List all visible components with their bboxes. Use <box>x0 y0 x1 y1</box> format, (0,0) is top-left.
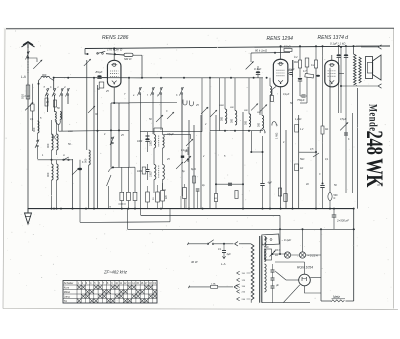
label RGN 1054 <box>297 266 313 270</box>
svg-text:0,1µF: 0,1µF <box>283 93 290 96</box>
wire lamp chain <box>306 254 321 256</box>
svg-text:0.1µF / 1 kΩ: 0.1µF / 1 kΩ <box>330 42 346 46</box>
hook pair B <box>190 101 194 106</box>
switch S5a <box>138 87 142 96</box>
wire v280 down <box>280 87 282 209</box>
wire V1 cathode down <box>113 87 115 103</box>
capacitor V2 k <box>271 87 277 102</box>
terminal pickup <box>260 129 266 134</box>
wire drop v186 <box>185 198 187 209</box>
svg-text:L.A: L.A <box>221 262 226 266</box>
resistor R3 <box>45 98 48 106</box>
svg-text:TA: TA <box>64 299 67 303</box>
svg-text:000: 000 <box>83 158 87 163</box>
resistor r287 <box>284 194 287 202</box>
svg-text:248 WK: 248 WK <box>361 131 386 188</box>
label misc19 <box>340 118 350 141</box>
wire v316 <box>315 45 317 60</box>
label misc2 <box>46 101 60 110</box>
tap arrows <box>237 271 240 301</box>
label tube V3 RENS 1374 d <box>318 35 349 41</box>
trimmer t2 <box>167 112 174 119</box>
trimmer v316 <box>299 152 319 157</box>
label misc16 <box>283 93 293 105</box>
switch S1c <box>60 88 64 97</box>
resistor r316 <box>311 60 318 68</box>
coil L5 pair <box>52 164 59 180</box>
wire v352 <box>352 113 354 193</box>
label r216 <box>214 198 217 200</box>
resistor r296 <box>295 125 304 171</box>
svg-text:000: 000 <box>42 73 47 77</box>
trimmer v2 grid <box>246 61 254 69</box>
svg-text:2×500 pF: 2×500 pF <box>336 219 349 223</box>
resistor r300 <box>298 60 301 77</box>
svg-text:0,5µF: 0,5µF <box>340 118 347 121</box>
resistor 51k <box>284 45 292 52</box>
label tube V2 RENS 1294 <box>267 36 294 42</box>
wire v330 <box>329 68 331 193</box>
antenna <box>22 42 35 48</box>
svg-text:1000: 1000 <box>150 140 153 146</box>
label misc15 <box>202 155 226 158</box>
pilot lamp 1 <box>284 252 299 258</box>
svg-text:RENS 1294: RENS 1294 <box>267 36 294 42</box>
label misc17 <box>295 118 305 161</box>
switch mains <box>207 240 214 245</box>
wire out top <box>353 45 355 54</box>
switch S5c <box>159 87 163 96</box>
wire v210b <box>209 132 211 209</box>
terminal out bottom <box>340 84 382 88</box>
label V2 cap <box>288 68 295 78</box>
wire L5 legs <box>51 159 58 210</box>
capacitor c302 h <box>300 95 307 97</box>
svg-text:Kurz: Kurz <box>64 285 70 289</box>
heater box TEC <box>264 246 275 260</box>
wire IF links <box>154 128 163 193</box>
svg-text:RENS 1286: RENS 1286 <box>102 35 129 41</box>
label L4 <box>46 143 50 148</box>
wire h131 <box>140 131 202 133</box>
wire v298 <box>298 115 300 209</box>
switch S1a <box>45 88 49 97</box>
resistor r322 <box>321 126 328 134</box>
wire osc left <box>37 133 39 159</box>
trimmer v342 <box>340 122 348 130</box>
label 750 <box>297 98 305 102</box>
svg-text:1Ω: 1Ω <box>214 198 217 200</box>
coil L11 <box>269 78 272 210</box>
label 1M <box>275 133 279 139</box>
wire osc bottom bus <box>38 157 73 161</box>
switch position table <box>63 281 157 304</box>
wire v189 <box>188 120 190 209</box>
svg-text:0.2: 0.2 <box>311 64 315 67</box>
wire v286 <box>285 130 287 209</box>
label row boxes <box>146 188 187 203</box>
capacitor c318 blob <box>316 75 320 77</box>
svg-text:RGN 1054: RGN 1054 <box>297 266 313 270</box>
transformer sec mid <box>264 249 266 262</box>
wire V2 top <box>280 45 282 59</box>
label misc18 <box>310 148 329 161</box>
svg-text:000: 000 <box>32 127 36 132</box>
svg-text:Fß C: Fß C <box>275 249 281 252</box>
tube V1 RENS 1286 <box>107 60 121 87</box>
switch S1d <box>66 88 70 97</box>
label r300a <box>294 56 298 64</box>
label caps <box>276 284 279 287</box>
ground bus dots <box>53 208 355 210</box>
wire L2 bottom <box>55 120 60 132</box>
wire v202b <box>200 115 202 209</box>
wire mains line <box>214 242 251 246</box>
coil l330 <box>328 193 338 209</box>
transformer core <box>260 236 262 303</box>
wire taps lead <box>247 273 251 299</box>
terminal mains <box>188 243 208 246</box>
switch S3 <box>97 51 106 54</box>
trimmer antenna <box>33 60 42 69</box>
svg-text:MΩ: MΩ <box>294 61 298 64</box>
wire return bus 2 <box>80 221 170 224</box>
capacitor c300 <box>298 78 302 96</box>
wire 2x500 link <box>333 222 335 229</box>
resistor IF1 <box>146 135 150 137</box>
resistor R5 box <box>31 84 34 131</box>
svg-text:750µF: 750µF <box>297 98 305 102</box>
coil L3 <box>38 121 40 133</box>
svg-text:1000: 1000 <box>150 171 153 177</box>
capacitor 0.1 <box>254 67 261 75</box>
svg-text:≈ 0.22 A: ≈ 0.22 A <box>308 254 318 258</box>
resistor r282 <box>278 188 281 196</box>
wire V3 top <box>331 55 333 60</box>
wire step right <box>353 209 355 301</box>
wire switch drops <box>48 95 69 131</box>
coil L6 <box>83 150 90 165</box>
svg-text:010: 010 <box>21 94 25 99</box>
wire row stubs <box>148 183 185 209</box>
wire IF out <box>163 189 167 191</box>
coil L8 <box>231 111 237 126</box>
label 170k <box>107 48 123 52</box>
svg-text:000: 000 <box>231 118 234 123</box>
wire v72 <box>72 159 74 209</box>
trimmer antenna low <box>25 102 33 110</box>
label lamp2 <box>308 254 318 258</box>
label misc1 <box>44 86 67 90</box>
wire V1 plate feed <box>141 55 143 79</box>
svg-text:1000: 1000 <box>137 141 143 143</box>
label misc3 <box>30 117 42 121</box>
scan speckle <box>6 31 393 306</box>
wire h184 <box>215 183 244 185</box>
transformer T out secondary <box>359 57 361 83</box>
svg-text:000: 000 <box>221 116 224 121</box>
wire v2 plate line <box>251 52 290 54</box>
trimmer t8 <box>251 103 258 110</box>
switch S1b <box>52 88 56 97</box>
wire v251 <box>250 53 252 62</box>
coil L9 <box>245 114 251 127</box>
wire v97 <box>97 85 99 209</box>
label ZF 482 <box>103 270 128 275</box>
capacitor c322 <box>320 186 324 209</box>
wire v322 down <box>322 134 324 185</box>
label misc6 <box>104 133 124 137</box>
svg-text:0,1µF: 0,1µF <box>181 149 188 152</box>
wire rect top <box>275 262 305 274</box>
capacitor c346 <box>344 45 348 58</box>
title 248WK <box>361 131 386 188</box>
wire v119 <box>112 103 119 168</box>
resistor bank bottom <box>119 192 137 206</box>
label L.A <box>21 75 26 79</box>
wire v258 <box>257 66 259 78</box>
wire psu bottom <box>251 300 310 303</box>
wire v129 <box>128 103 130 168</box>
label misc10 <box>219 105 234 109</box>
label 47k <box>184 149 188 153</box>
wire v346 down <box>345 58 347 193</box>
terminal pickup2 <box>272 122 279 127</box>
svg-text:TEC: TEC <box>264 246 269 249</box>
svg-text:Mittel: Mittel <box>64 290 71 294</box>
wire out link <box>356 45 390 47</box>
wire v111 <box>110 103 112 168</box>
label misc9 <box>195 104 209 110</box>
svg-text:000: 000 <box>46 172 50 177</box>
label 30W <box>191 260 198 264</box>
trimmer t6 <box>176 162 183 169</box>
wire heater out <box>272 253 287 255</box>
wire v307 <box>306 67 308 96</box>
wire v321 psu <box>320 228 322 301</box>
wire h130 <box>210 130 263 132</box>
resistor r307 pair <box>303 58 309 73</box>
coil L2 pair <box>55 112 61 120</box>
wire h130 left <box>59 129 130 131</box>
label misc5 <box>82 113 98 164</box>
wire L4 stubs <box>52 120 57 159</box>
wire v194 <box>193 125 195 209</box>
wire v322 <box>322 45 324 126</box>
transformer primary <box>251 244 254 300</box>
tube V3 RENS 1374d <box>325 60 339 87</box>
wire v260 <box>259 78 261 115</box>
svg-text:Netz: Netz <box>333 295 340 299</box>
wire af link <box>299 45 301 60</box>
capacitor mains <box>218 244 231 259</box>
svg-text:Schalter: Schalter <box>64 281 74 285</box>
resistor R4 <box>54 100 57 107</box>
resistor IF2 box <box>142 167 146 174</box>
trimmer v88 <box>88 106 95 113</box>
tube V2 RENS 1294 <box>273 59 288 87</box>
right divider line <box>357 88 359 209</box>
wire step1 <box>279 216 281 255</box>
capacitor C10 <box>21 85 31 99</box>
wire h103 <box>111 102 129 104</box>
trimmer osc <box>72 168 79 175</box>
svg-text:1,2kΩ: 1,2kΩ <box>295 118 302 121</box>
capacitor c230 <box>228 183 232 185</box>
trimmer t7 <box>184 156 191 163</box>
wire return bus 3 <box>128 228 356 230</box>
wire v338 down <box>338 58 340 113</box>
trimmer t4 <box>210 110 217 117</box>
svg-text:4µF: 4µF <box>268 182 273 185</box>
switch S5b <box>151 87 155 96</box>
label misc21 <box>105 90 126 96</box>
label coil L1 <box>42 73 47 77</box>
label 80k <box>255 49 268 53</box>
svg-text:1Ω: 1Ω <box>275 254 278 257</box>
wire return bus 1 <box>141 215 280 217</box>
wire v94 <box>93 78 95 209</box>
svg-text:12µF: 12µF <box>289 68 295 72</box>
wire V2 right <box>288 60 293 70</box>
label LA2 <box>221 262 226 266</box>
transformer sec top <box>264 237 266 247</box>
capacitor osc pad <box>78 160 82 209</box>
wire bank stubs <box>122 167 135 208</box>
svg-text:Mende: Mende <box>366 104 378 131</box>
svg-text:m: m <box>63 154 65 157</box>
svg-text:1 MΩ: 1 MΩ <box>275 133 279 139</box>
resistor NR <box>106 53 142 61</box>
switch S5d <box>180 87 184 96</box>
svg-text:NR Ω: NR Ω <box>124 57 132 61</box>
wire v356 down <box>355 85 357 86</box>
fuse <box>331 295 345 302</box>
capacitor grid blob <box>95 70 103 79</box>
wire v316 down <box>315 68 317 209</box>
tap labels <box>242 273 246 301</box>
wire primary top <box>251 243 254 245</box>
svg-text:51kΩ: 51kΩ <box>284 45 292 49</box>
capacitor IF2 <box>146 164 150 180</box>
wire sw drops2 <box>141 94 183 216</box>
label misc23 <box>283 141 309 186</box>
wire v292 <box>292 60 294 209</box>
title Mende <box>366 104 378 131</box>
wire drop v181 <box>180 196 182 209</box>
trimmer t1 <box>156 115 163 122</box>
wire h96 drop <box>300 96 307 103</box>
label misc12 <box>167 133 188 152</box>
terminal out top <box>361 45 382 49</box>
wire step3 <box>127 209 129 230</box>
label 4d <box>268 182 273 185</box>
trimmer t9 <box>260 104 267 111</box>
wire V1 anode top <box>113 47 115 60</box>
selector plate <box>262 234 292 245</box>
label gw <box>191 167 196 171</box>
label misc7 <box>133 94 178 97</box>
capacitor stack <box>271 264 275 303</box>
label L3 <box>32 127 36 132</box>
svg-text:0000: 0000 <box>219 105 225 107</box>
wire ground bus <box>28 208 354 210</box>
label V3 in <box>330 42 346 46</box>
trimmer input <box>84 59 91 66</box>
label misc8 <box>149 110 168 121</box>
wire v341 <box>340 46 342 113</box>
coupler dashes <box>27 59 29 74</box>
svg-text:4.7: 4.7 <box>303 70 307 73</box>
svg-text:C10: C10 <box>25 94 31 98</box>
wire top HT bus <box>85 46 390 49</box>
IF transformer T2 <box>150 165 165 180</box>
wire y78 bus mid <box>142 77 268 79</box>
svg-text:Ω: Ω <box>334 197 336 200</box>
svg-text:JWµF: JWµF <box>95 70 103 74</box>
wire v210 <box>209 78 211 132</box>
label misc24 <box>319 173 337 187</box>
speaker <box>366 55 382 80</box>
wire coil left leg <box>38 81 40 126</box>
svg-text:RENS 1374 d: RENS 1374 d <box>318 35 349 41</box>
wire h167 <box>111 166 135 168</box>
switch antenna <box>26 51 30 60</box>
svg-text:47µµF: 47µµF <box>167 133 174 136</box>
wire coil right leg <box>53 77 55 90</box>
switch S4 <box>110 137 114 146</box>
svg-text:0.2: 0.2 <box>294 56 298 59</box>
svg-text:50: 50 <box>97 87 101 91</box>
wire bus corner <box>85 49 89 56</box>
svg-text:Lang: Lang <box>64 294 70 298</box>
svg-text:000: 000 <box>258 122 261 127</box>
label tube V1 RENS 1286 <box>102 35 129 41</box>
label misc14 <box>137 141 143 173</box>
wire link y78 left <box>54 77 142 79</box>
capacitor 2x500 <box>332 208 349 223</box>
wire h102 <box>129 102 177 104</box>
wire v182 <box>181 95 183 196</box>
svg-text:1000: 1000 <box>137 171 143 173</box>
wire step2 <box>80 209 170 223</box>
capacitor c346b <box>344 133 348 135</box>
transformer sec bot <box>264 264 266 292</box>
label right note <box>377 183 384 187</box>
wire v202 <box>201 78 203 132</box>
svg-text:2,5A: 2,5A <box>211 282 216 285</box>
coil L1 horizontal <box>39 76 54 80</box>
wire v216b <box>215 115 217 194</box>
svg-text:L.A: L.A <box>21 75 26 79</box>
coil L4 pair <box>52 134 59 150</box>
resistor r194 <box>193 176 206 209</box>
trimmer t3 <box>201 107 208 114</box>
label bank <box>110 207 112 209</box>
capacitor c338 <box>337 45 341 58</box>
switch S2 <box>35 140 39 149</box>
svg-text:6μΩ: 6μΩ <box>191 167 196 171</box>
resistor r309 slant <box>305 73 314 78</box>
wire v3 grid right <box>339 73 344 75</box>
svg-text:ZF=482 kHz: ZF=482 kHz <box>103 270 128 275</box>
label misc11 <box>244 110 261 114</box>
svg-text:0000: 0000 <box>68 131 74 133</box>
capacitor IF1 <box>145 132 149 152</box>
ground symbol <box>25 209 32 224</box>
label L5 <box>46 172 50 177</box>
wire antenna lead <box>27 48 29 209</box>
